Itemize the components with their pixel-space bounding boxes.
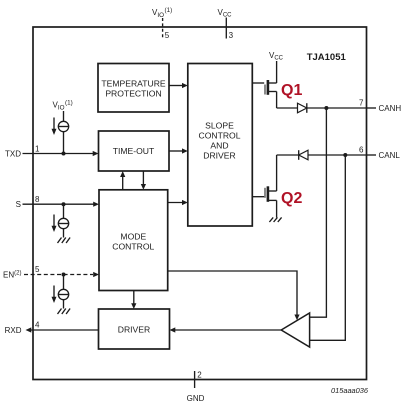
svg-text:CANH: CANH bbox=[379, 104, 402, 113]
wire MODE CONTROL to DRIVER (arrow down) bbox=[133, 291, 135, 306]
pin 5 VIO top label bbox=[152, 7, 172, 19]
svg-text:1: 1 bbox=[35, 145, 40, 154]
svg-text:Q2: Q2 bbox=[281, 190, 302, 207]
transistor Q1 bbox=[252, 80, 276, 95]
pin 6 CANL stub bbox=[366, 154, 376, 156]
svg-text:CONTROL: CONTROL bbox=[198, 131, 240, 141]
wire TXD to TIME-OUT bbox=[23, 153, 96, 155]
node EN junction bbox=[62, 273, 66, 277]
wire comparator output to DRIVER bbox=[173, 329, 281, 331]
wire CANL to Q2 drain bbox=[276, 155, 278, 191]
svg-text:5: 5 bbox=[165, 31, 170, 40]
ground (EN pull-down) bbox=[58, 309, 71, 315]
svg-text:DRIVER: DRIVER bbox=[203, 151, 235, 161]
svg-text:S: S bbox=[16, 200, 21, 209]
current source I(S pull-down) bbox=[58, 218, 68, 228]
current source I(TXD pull-up) bbox=[58, 121, 68, 131]
block SLOPE CONTROL AND DRIVER bbox=[188, 64, 253, 227]
node S junction bbox=[62, 202, 66, 206]
svg-text:MODE: MODE bbox=[120, 232, 146, 242]
wire CANH junction down to comparator bbox=[310, 108, 327, 317]
svg-text:3: 3 bbox=[229, 31, 234, 40]
svg-text:AND: AND bbox=[210, 141, 228, 151]
svg-text:DRIVER: DRIVER bbox=[118, 325, 150, 335]
svg-text:015aaa036: 015aaa036 bbox=[331, 386, 369, 395]
svg-text:6: 6 bbox=[359, 146, 364, 155]
pin 7 CANH stub bbox=[366, 107, 376, 109]
wire DRIVER to RXD (arrow left) bbox=[29, 329, 99, 331]
current direction arrow (S) bbox=[53, 215, 55, 229]
svg-text:7: 7 bbox=[359, 99, 364, 108]
svg-text:2: 2 bbox=[197, 371, 202, 380]
wire TEMPERATURE PROTECTION to SLOPE CONTROL bbox=[169, 85, 184, 87]
diode D1 (CANH) bbox=[298, 103, 307, 113]
svg-text:TEMPERATURE: TEMPERATURE bbox=[101, 79, 166, 89]
wire TIME-OUT to MODE CONTROL (arrow down) bbox=[142, 171, 144, 186]
wire Q1 drain to CANH line bbox=[276, 92, 278, 109]
block DRIVER bbox=[99, 309, 170, 349]
op-amp receiver comparator bbox=[281, 313, 309, 347]
pin 5 VIO dashed pin wire bbox=[162, 18, 164, 38]
wire S pull-down bbox=[63, 204, 65, 237]
wire MODE CONTROL to TIME-OUT (arrow up) bbox=[122, 175, 124, 190]
svg-text:SLOPE: SLOPE bbox=[205, 121, 234, 131]
node CANL junction bbox=[343, 153, 347, 157]
svg-text:8: 8 bbox=[35, 195, 40, 204]
pin 3 VCC pin wire bbox=[225, 18, 227, 39]
pin 3 VCC top label bbox=[217, 8, 232, 19]
wire EN to MODE CONTROL (dashed) bbox=[24, 274, 93, 276]
wire VCC to Q1 source bbox=[276, 61, 278, 83]
wire S to MODE CONTROL bbox=[23, 203, 96, 205]
block TIME-OUT bbox=[99, 131, 170, 171]
svg-text:Q1: Q1 bbox=[281, 82, 302, 99]
svg-text:TXD: TXD bbox=[5, 150, 21, 159]
block TEMPERATURE PROTECTION bbox=[98, 64, 169, 113]
svg-text:CANL: CANL bbox=[379, 151, 401, 160]
wire TIME-OUT to SLOPE CONTROL bbox=[169, 150, 184, 152]
svg-text:4: 4 bbox=[35, 321, 40, 330]
wire Q2 source to ground bbox=[276, 200, 278, 217]
wire EN pull-down bbox=[63, 275, 65, 309]
pin 2 GND wire (bottom) bbox=[194, 371, 196, 388]
wire CANL junction down to comparator bbox=[310, 155, 346, 340]
svg-text:TIME-OUT: TIME-OUT bbox=[113, 146, 155, 156]
svg-text:RXD: RXD bbox=[5, 326, 22, 335]
wire VIO to TXD line bbox=[63, 111, 65, 154]
diode D2 (CANL) bbox=[299, 150, 308, 160]
node TXD junction bbox=[62, 152, 66, 156]
ground (Q2 source) bbox=[269, 217, 281, 222]
current source I(EN pull-down) bbox=[58, 289, 68, 299]
block MODE CONTROL bbox=[99, 190, 168, 291]
svg-text:PROTECTION: PROTECTION bbox=[105, 89, 161, 99]
current direction arrow (TXD) bbox=[53, 118, 55, 132]
wire MODE CONTROL to comparator enable bbox=[168, 271, 297, 317]
wire CANH line bbox=[277, 107, 366, 109]
outer chip boundary bbox=[33, 27, 367, 380]
svg-text:GND: GND bbox=[187, 394, 205, 403]
transistor Q2 bbox=[252, 186, 276, 202]
wire CANL line bbox=[277, 154, 366, 156]
current direction arrow (EN) bbox=[53, 286, 55, 300]
wire MODE CONTROL to SLOPE CONTROL bbox=[168, 202, 184, 204]
svg-text:CONTROL: CONTROL bbox=[112, 242, 154, 252]
ground (S pull-down) bbox=[58, 238, 71, 244]
node CANH junction bbox=[324, 106, 328, 110]
svg-text:5: 5 bbox=[35, 265, 40, 274]
svg-text:TJA1051: TJA1051 bbox=[307, 52, 347, 63]
